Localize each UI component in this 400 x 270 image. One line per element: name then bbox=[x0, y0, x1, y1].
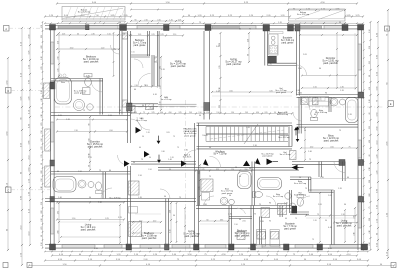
svg-text:4.50: 4.50 bbox=[41, 138, 43, 141]
wall wc bottom y56 bbox=[131, 54, 150, 56]
svg-text:2.10: 2.10 bbox=[74, 130, 77, 132]
door arc right bath bbox=[300, 100, 310, 110]
svg-text:1.50: 1.50 bbox=[131, 52, 134, 54]
wall horizontal y162 hall bottom bbox=[131, 161, 196, 163]
svg-text:90: 90 bbox=[142, 136, 144, 138]
interior dim kitchen top bbox=[248, 33, 250, 62]
svg-text:3.25: 3.25 bbox=[151, 34, 154, 36]
svg-text:90: 90 bbox=[135, 19, 137, 21]
svg-text:75: 75 bbox=[295, 218, 297, 220]
axis bubble bottom-left inner bbox=[27, 263, 32, 268]
dimension chain left row2 bbox=[21, 28, 23, 265]
svg-text:1.50: 1.50 bbox=[234, 224, 237, 226]
stair core wall top y123 bbox=[197, 122, 293, 124]
svg-text:pard. gresie: pard. gresie bbox=[276, 91, 286, 94]
svg-text:2.40: 2.40 bbox=[159, 85, 161, 88]
svg-text:60: 60 bbox=[239, 29, 241, 31]
staircase break diagonal bbox=[244, 124, 258, 144]
window bottom 8 bbox=[330, 244, 358, 246]
svg-text:1.50: 1.50 bbox=[161, 29, 165, 31]
svg-text:4.50: 4.50 bbox=[41, 25, 43, 28]
axis leader left C bbox=[11, 189, 50, 191]
column bottom-right bbox=[361, 244, 368, 250]
toilet top-left bbox=[84, 74, 92, 77]
svg-text:75: 75 bbox=[369, 207, 371, 209]
dimension chain top row2 mid bbox=[131, 9, 183, 11]
svg-text:1.20: 1.20 bbox=[348, 114, 352, 116]
window bottom 7 bbox=[295, 244, 313, 246]
dimension chain right close ticks bbox=[363, 25, 365, 250]
pilaster hatch left y83 bbox=[44, 83, 50, 99]
wall vertical x343 mid-right bbox=[342, 162, 344, 182]
wall vertical x320 hol right bbox=[318, 162, 320, 178]
svg-text:2.05: 2.05 bbox=[150, 108, 154, 110]
dimension chain left row3 bbox=[29, 28, 31, 245]
svg-text:75: 75 bbox=[179, 197, 181, 199]
svg-text:2.10: 2.10 bbox=[228, 214, 232, 216]
svg-text:75: 75 bbox=[312, 239, 314, 241]
svg-text:3.00: 3.00 bbox=[160, 112, 163, 114]
wall horizontal y206 center-right bbox=[196, 205, 291, 207]
svg-text:3.50: 3.50 bbox=[57, 56, 59, 59]
wall vertical x300 bath left bbox=[298, 98, 300, 134]
svg-text:3.00: 3.00 bbox=[169, 210, 171, 213]
door arc left dormitor bbox=[118, 155, 128, 165]
svg-text:3.50: 3.50 bbox=[244, 169, 247, 171]
svg-text:1.20: 1.20 bbox=[338, 188, 342, 190]
svg-text:1.20: 1.20 bbox=[41, 56, 43, 59]
wall vertical x204 between livings bbox=[203, 31, 205, 120]
arrow chevron c bbox=[181, 161, 187, 167]
wall horizontal y190 step bbox=[309, 189, 334, 191]
wall vertical x104 bath lower right bbox=[102, 172, 104, 199]
dimension chain top outer bbox=[57, 3, 357, 5]
column bottom x196 bbox=[194, 244, 200, 250]
svg-text:1.85: 1.85 bbox=[320, 177, 324, 179]
svg-text:2.05: 2.05 bbox=[303, 54, 307, 56]
column x127 y105 bbox=[127, 103, 133, 111]
window right 2 bbox=[357, 140, 359, 158]
interior dim bottom-right vertical bbox=[354, 208, 356, 242]
svg-text:2.05: 2.05 bbox=[58, 115, 62, 117]
svg-text:pard. gresie: pard. gresie bbox=[282, 42, 295, 44]
svg-text:2.05: 2.05 bbox=[242, 221, 245, 223]
interior dim bottom-left vertical bbox=[58, 203, 60, 242]
window bottom 1 bbox=[62, 244, 95, 246]
kitchen top-center counter bbox=[269, 34, 278, 55]
sink right-mid 1 bbox=[330, 98, 338, 106]
window top 6 bbox=[324, 25, 343, 27]
svg-text:1.50: 1.50 bbox=[231, 112, 234, 114]
bathtub right-mid bbox=[346, 98, 359, 123]
svg-text:2.40: 2.40 bbox=[91, 33, 94, 35]
svg-text:75: 75 bbox=[259, 204, 261, 206]
staircase center rail bbox=[206, 133, 288, 135]
svg-text:Su = 12.2 mp: Su = 12.2 mp bbox=[278, 137, 289, 139]
svg-text:90: 90 bbox=[114, 49, 116, 51]
wall vertical x252 bottom bbox=[250, 206, 252, 245]
wall vertical x281 bottom bbox=[279, 206, 281, 218]
column bottom x320 bbox=[317, 244, 323, 250]
svg-text:60: 60 bbox=[109, 170, 111, 172]
svg-text:60: 60 bbox=[369, 155, 371, 157]
svg-text:Su = 4.52 mp: Su = 4.52 mp bbox=[297, 14, 310, 16]
svg-text:1.20: 1.20 bbox=[41, 90, 43, 93]
wardrobe corridor hatch 2 bbox=[129, 222, 142, 237]
dimension chain top row4 mid bbox=[131, 20, 183, 22]
arrow small top kitchen bbox=[243, 161, 250, 167]
column x204 y103 bbox=[204, 103, 210, 111]
svg-text:3.66: 3.66 bbox=[298, 92, 302, 94]
sink small top-left bbox=[87, 104, 93, 110]
svg-text:2.10: 2.10 bbox=[173, 34, 176, 36]
window left 3 bbox=[50, 208, 52, 234]
window bottom 4 bbox=[172, 244, 190, 246]
arrow wing right mid bbox=[267, 159, 274, 165]
svg-text:2.10: 2.10 bbox=[144, 19, 147, 21]
dimension chain top close ticks bbox=[45, 22, 363, 24]
window top 5 sill bbox=[298, 26, 322, 29]
kitchen cabinet run bottom 1 bbox=[257, 230, 266, 247]
wall horizontal y199 left wing bbox=[45, 198, 166, 200]
svg-text:3.50: 3.50 bbox=[248, 248, 252, 250]
svg-text:1.50: 1.50 bbox=[41, 242, 43, 245]
balcony top-left outline bbox=[62, 7, 125, 21]
interior dim mid below wall bbox=[131, 35, 183, 37]
svg-text:4.10: 4.10 bbox=[139, 220, 142, 222]
svg-text:pard. parchet: pard. parchet bbox=[235, 235, 250, 238]
svg-text:90: 90 bbox=[274, 112, 276, 114]
svg-text:1.50: 1.50 bbox=[107, 33, 110, 35]
kitchen sink top bbox=[271, 36, 275, 40]
svg-text:3.85: 3.85 bbox=[219, 105, 221, 108]
toilet right-mid bbox=[311, 117, 318, 120]
svg-text:2.10: 2.10 bbox=[341, 214, 345, 216]
svg-text:90: 90 bbox=[89, 197, 91, 199]
svg-text:90: 90 bbox=[169, 169, 171, 171]
window top 3 bbox=[137, 25, 180, 27]
svg-text:1.20: 1.20 bbox=[146, 132, 149, 134]
svg-text:4.10: 4.10 bbox=[353, 232, 355, 235]
wall horizontal y212 wc bottom bbox=[290, 211, 309, 213]
svg-text:3.25: 3.25 bbox=[178, 112, 181, 114]
column top x123 bbox=[120, 25, 127, 31]
bathtub center-left vertical bbox=[238, 172, 252, 189]
axis bubble bottom-right bbox=[391, 263, 396, 268]
svg-text:2.05: 2.05 bbox=[264, 112, 267, 114]
column bottom x230 bbox=[229, 244, 235, 250]
svg-text:60: 60 bbox=[41, 235, 43, 237]
interior dim above stairs bbox=[131, 113, 292, 115]
svg-text:1.50: 1.50 bbox=[159, 101, 161, 104]
svg-text:90: 90 bbox=[164, 196, 166, 198]
toilet bottom-right wc bbox=[297, 195, 304, 198]
svg-text:3.85: 3.85 bbox=[86, 76, 90, 78]
washer boxes center bath bbox=[202, 193, 210, 201]
svg-text:pard. parchet: pard. parchet bbox=[142, 237, 157, 240]
wall horizontal y177 right wing low bbox=[290, 176, 311, 178]
svg-text:90: 90 bbox=[119, 110, 121, 112]
dimension chain bottom close ticks bbox=[45, 251, 368, 253]
bathtub center-right horizontal bbox=[258, 178, 282, 190]
svg-text:pard. parchet: pard. parchet bbox=[226, 63, 241, 66]
svg-text:60: 60 bbox=[77, 33, 79, 35]
window bottom 6 bbox=[262, 244, 280, 246]
svg-text:2.05: 2.05 bbox=[166, 132, 169, 134]
dimension chain right outer bbox=[387, 10, 389, 258]
arrow wing far right bbox=[292, 165, 298, 170]
svg-text:Su = 4.7 mp: Su = 4.7 mp bbox=[273, 196, 283, 198]
svg-text:60: 60 bbox=[57, 171, 59, 173]
interior dim dormitor h1 bbox=[57, 119, 127, 121]
svg-text:1.50: 1.50 bbox=[198, 112, 201, 114]
wardrobe corridor hatch 1 bbox=[129, 181, 140, 195]
door arc bottom room2 bbox=[160, 189, 170, 199]
axis leader top-left bbox=[9, 27, 45, 29]
svg-text:3.85: 3.85 bbox=[57, 211, 59, 214]
svg-text:Su = 81.75: Su = 81.75 bbox=[183, 157, 192, 159]
svg-text:60: 60 bbox=[314, 114, 316, 116]
svg-text:3.25: 3.25 bbox=[151, 112, 154, 114]
svg-text:75: 75 bbox=[254, 214, 256, 216]
kitchen top small shelf bbox=[269, 32, 283, 34]
windfang door arc bbox=[210, 156, 221, 167]
svg-text:pard. parchet: pard. parchet bbox=[324, 140, 339, 143]
dim leader right y178 bbox=[311, 177, 364, 179]
hall top wall y104 light segment bbox=[158, 103, 197, 105]
svg-text:75: 75 bbox=[83, 110, 85, 112]
interior dim bottom mid bbox=[133, 221, 161, 223]
dimension chain right row2 bbox=[377, 22, 379, 250]
corridor hatch x127 y105 bbox=[127, 105, 135, 112]
door arc birou bbox=[334, 162, 345, 173]
axis bubble right E bbox=[388, 101, 394, 107]
svg-text:3.25: 3.25 bbox=[41, 154, 43, 157]
interior dim dormitor left bbox=[89, 117, 91, 170]
dimension chain right row3 bbox=[370, 22, 372, 250]
window top 2 bbox=[88, 25, 118, 27]
sink bottom-left 1 bbox=[78, 180, 86, 188]
svg-text:3.25: 3.25 bbox=[57, 68, 59, 71]
svg-text:Su = 7.12 mp: Su = 7.12 mp bbox=[213, 154, 227, 156]
svg-text:4.50: 4.50 bbox=[109, 130, 112, 132]
wall horizontal y95 right wing bbox=[297, 94, 359, 96]
svg-text:90: 90 bbox=[247, 54, 249, 56]
svg-text:3.50: 3.50 bbox=[369, 242, 371, 245]
dimension chain top row2 right bbox=[288, 9, 345, 11]
interior light dim line top rooms bbox=[57, 48, 119, 50]
interior dim bottom right rooms bbox=[344, 210, 346, 242]
wall vertical x330 bath divider bbox=[328, 98, 330, 113]
dimension chain top row3 left bbox=[45, 16, 131, 18]
interior dim top living rooms bbox=[212, 91, 292, 93]
svg-text:1.20: 1.20 bbox=[260, 221, 264, 223]
column bottom x252 bbox=[251, 244, 256, 250]
svg-text:3.00: 3.00 bbox=[41, 210, 43, 213]
dimension chain left close ticks bbox=[42, 22, 44, 248]
door arc bottom room6 bbox=[300, 196, 310, 206]
svg-text:18x28: 18x28 bbox=[202, 135, 207, 137]
kitchen bottom block 3 bbox=[237, 232, 245, 240]
interior dim top-left room vertical bbox=[58, 33, 60, 76]
door arc bottom room4 bbox=[237, 208, 246, 214]
svg-text:2.05: 2.05 bbox=[41, 35, 43, 38]
wall vertical x120 shaft left bbox=[119, 31, 121, 115]
svg-text:pard. gresie: pard. gresie bbox=[263, 155, 273, 158]
svg-text:90: 90 bbox=[209, 147, 211, 149]
kitchen dark appliance bbox=[268, 56, 277, 63]
sink big top-left bbox=[73, 99, 84, 110]
svg-text:1.50: 1.50 bbox=[313, 86, 317, 88]
svg-text:4.50: 4.50 bbox=[229, 90, 232, 92]
svg-text:90: 90 bbox=[304, 130, 306, 132]
svg-text:1.50: 1.50 bbox=[78, 171, 82, 173]
entrance arrow 1 bbox=[157, 141, 161, 144]
axis line vertical dashed x185 bbox=[185, 100, 187, 252]
axis bubble bottom-left outer bbox=[3, 263, 8, 268]
wall right exterior bbox=[357, 26, 359, 251]
bathtub top-left bbox=[55, 78, 72, 105]
svg-text:3.00: 3.00 bbox=[41, 170, 43, 173]
svg-text:1.20: 1.20 bbox=[66, 119, 70, 121]
window bottom 5 bbox=[205, 244, 226, 246]
svg-text:3.50: 3.50 bbox=[369, 46, 371, 49]
dimension chain top row3 mid bbox=[183, 16, 290, 18]
svg-text:60: 60 bbox=[139, 147, 141, 149]
svg-text:2.40: 2.40 bbox=[58, 197, 62, 199]
interior dim birou v bbox=[304, 128, 306, 160]
svg-text:1.50: 1.50 bbox=[148, 169, 151, 171]
washer hatch center bath bbox=[201, 179, 213, 192]
svg-text:Su = 64.2 mp: Su = 64.2 mp bbox=[277, 114, 288, 116]
wall vertical x310 step bbox=[308, 177, 310, 192]
door arc entrance bbox=[137, 117, 150, 130]
svg-text:4.05: 4.05 bbox=[148, 248, 152, 250]
window bottom 2 bbox=[104, 244, 122, 246]
svg-text:75: 75 bbox=[173, 136, 175, 138]
svg-text:1.85: 1.85 bbox=[268, 64, 272, 66]
svg-text:90: 90 bbox=[199, 115, 201, 117]
svg-text:3.25: 3.25 bbox=[88, 157, 92, 159]
svg-text:3.50: 3.50 bbox=[284, 112, 287, 114]
svg-text:75: 75 bbox=[123, 33, 125, 35]
svg-text:75: 75 bbox=[141, 159, 143, 161]
svg-text:4.10: 4.10 bbox=[369, 140, 371, 143]
dark door block x292 y206 bbox=[292, 206, 298, 214]
svg-text:90: 90 bbox=[173, 215, 175, 217]
svg-text:90: 90 bbox=[344, 204, 346, 206]
svg-text:2.40: 2.40 bbox=[247, 39, 249, 42]
svg-text:60: 60 bbox=[88, 165, 90, 167]
svg-text:60: 60 bbox=[347, 177, 349, 179]
svg-text:3.25: 3.25 bbox=[216, 169, 219, 171]
svg-text:1.50: 1.50 bbox=[216, 112, 219, 114]
wall top exterior bbox=[45, 25, 363, 27]
svg-text:3.50: 3.50 bbox=[41, 202, 43, 205]
svg-text:pard. parchet: pard. parchet bbox=[171, 65, 186, 68]
column left wall y85 bbox=[50, 82, 55, 89]
wall horizontal y217 kitchen bottom bbox=[229, 216, 252, 218]
interior dim windfang bbox=[199, 165, 201, 196]
door arc wc top bbox=[134, 59, 143, 68]
balcony top-left hatch lines bbox=[66, 7, 71, 20]
dimension chain bottom outer bbox=[29, 265, 394, 267]
column top x85 bbox=[86, 25, 90, 30]
svg-text:2.40: 2.40 bbox=[41, 218, 43, 221]
svg-text:Su = 2.9 mp: Su = 2.9 mp bbox=[280, 154, 292, 156]
column right wall y160 bbox=[359, 160, 364, 166]
window right 1 bbox=[357, 44, 359, 70]
door arc stair-hall bbox=[184, 150, 196, 162]
svg-text:Su = 3.78 mp: Su = 3.78 mp bbox=[109, 197, 120, 199]
wall horizontal y172 left bath bbox=[51, 171, 131, 173]
svg-text:90: 90 bbox=[325, 92, 327, 94]
kitchen stove top bbox=[269, 46, 277, 54]
interior dim dormitor right bbox=[336, 33, 338, 88]
axis bubble top-left A bbox=[4, 26, 10, 32]
svg-text:4.10: 4.10 bbox=[41, 186, 43, 189]
balcony top-left edge ticks bbox=[62, 21, 125, 23]
svg-text:Baie: Baie bbox=[61, 82, 65, 84]
wall horizontal y79 bath top-left bbox=[51, 78, 103, 80]
door arc dormitor top-right bbox=[297, 65, 307, 75]
interior dim bottom-right room bbox=[306, 215, 356, 217]
interior dim x320 lower bbox=[319, 193, 321, 242]
wall vertical x127 upper bbox=[127, 31, 129, 143]
wall vertical x153 hall left bbox=[151, 55, 153, 86]
svg-text:3.25: 3.25 bbox=[269, 90, 272, 92]
arrow chevron d bbox=[124, 161, 130, 167]
svg-text:1.20: 1.20 bbox=[313, 220, 316, 222]
svg-text:Su = 4.25 mp: Su = 4.25 mp bbox=[78, 12, 91, 14]
column bottom x286 bbox=[284, 244, 290, 250]
arrow stair right down bbox=[296, 139, 300, 142]
dimension chain bottom row2 bbox=[45, 260, 368, 262]
column top x296 bbox=[295, 25, 300, 32]
interior dim dormitor h2 bbox=[57, 131, 127, 133]
stair core wall left x196 bbox=[194, 123, 196, 199]
svg-text:1.50: 1.50 bbox=[57, 41, 59, 44]
column right wall y199 bbox=[359, 197, 364, 203]
svg-text:2.05: 2.05 bbox=[62, 33, 65, 35]
duct hatch x154 y58 bbox=[154, 57, 157, 62]
svg-text:pard. gresie: pard. gresie bbox=[284, 228, 297, 230]
svg-text:60: 60 bbox=[207, 219, 209, 221]
wall vertical x253 center bath bbox=[251, 162, 253, 206]
interior dim top left room v2 bbox=[113, 33, 115, 76]
svg-text:4.48: 4.48 bbox=[328, 227, 332, 229]
svg-text:4.50: 4.50 bbox=[168, 112, 171, 114]
column bottom x166 bbox=[165, 244, 170, 250]
svg-text:75: 75 bbox=[339, 130, 341, 132]
axis bubble left D bbox=[6, 88, 12, 94]
svg-text:90: 90 bbox=[149, 157, 151, 159]
svg-text:3.85: 3.85 bbox=[41, 66, 43, 69]
wall vertical x166 bottom bbox=[165, 199, 167, 245]
svg-text:pard. parchet: pard. parchet bbox=[323, 62, 338, 65]
door arc living-left bbox=[138, 74, 151, 87]
svg-text:3.25: 3.25 bbox=[369, 61, 371, 64]
sink bottom-right wc bbox=[290, 203, 296, 209]
svg-text:90: 90 bbox=[299, 177, 301, 179]
washer box top-left bbox=[83, 88, 91, 95]
svg-text:3.00: 3.00 bbox=[41, 45, 43, 48]
interior dim living2 vertical bbox=[220, 33, 222, 113]
wall vertical x100 bath right bbox=[99, 79, 101, 115]
wall horizontal y125 right wing bbox=[297, 124, 359, 126]
door arc bottom room1 bbox=[101, 188, 112, 199]
svg-text:3.00: 3.00 bbox=[216, 46, 220, 48]
